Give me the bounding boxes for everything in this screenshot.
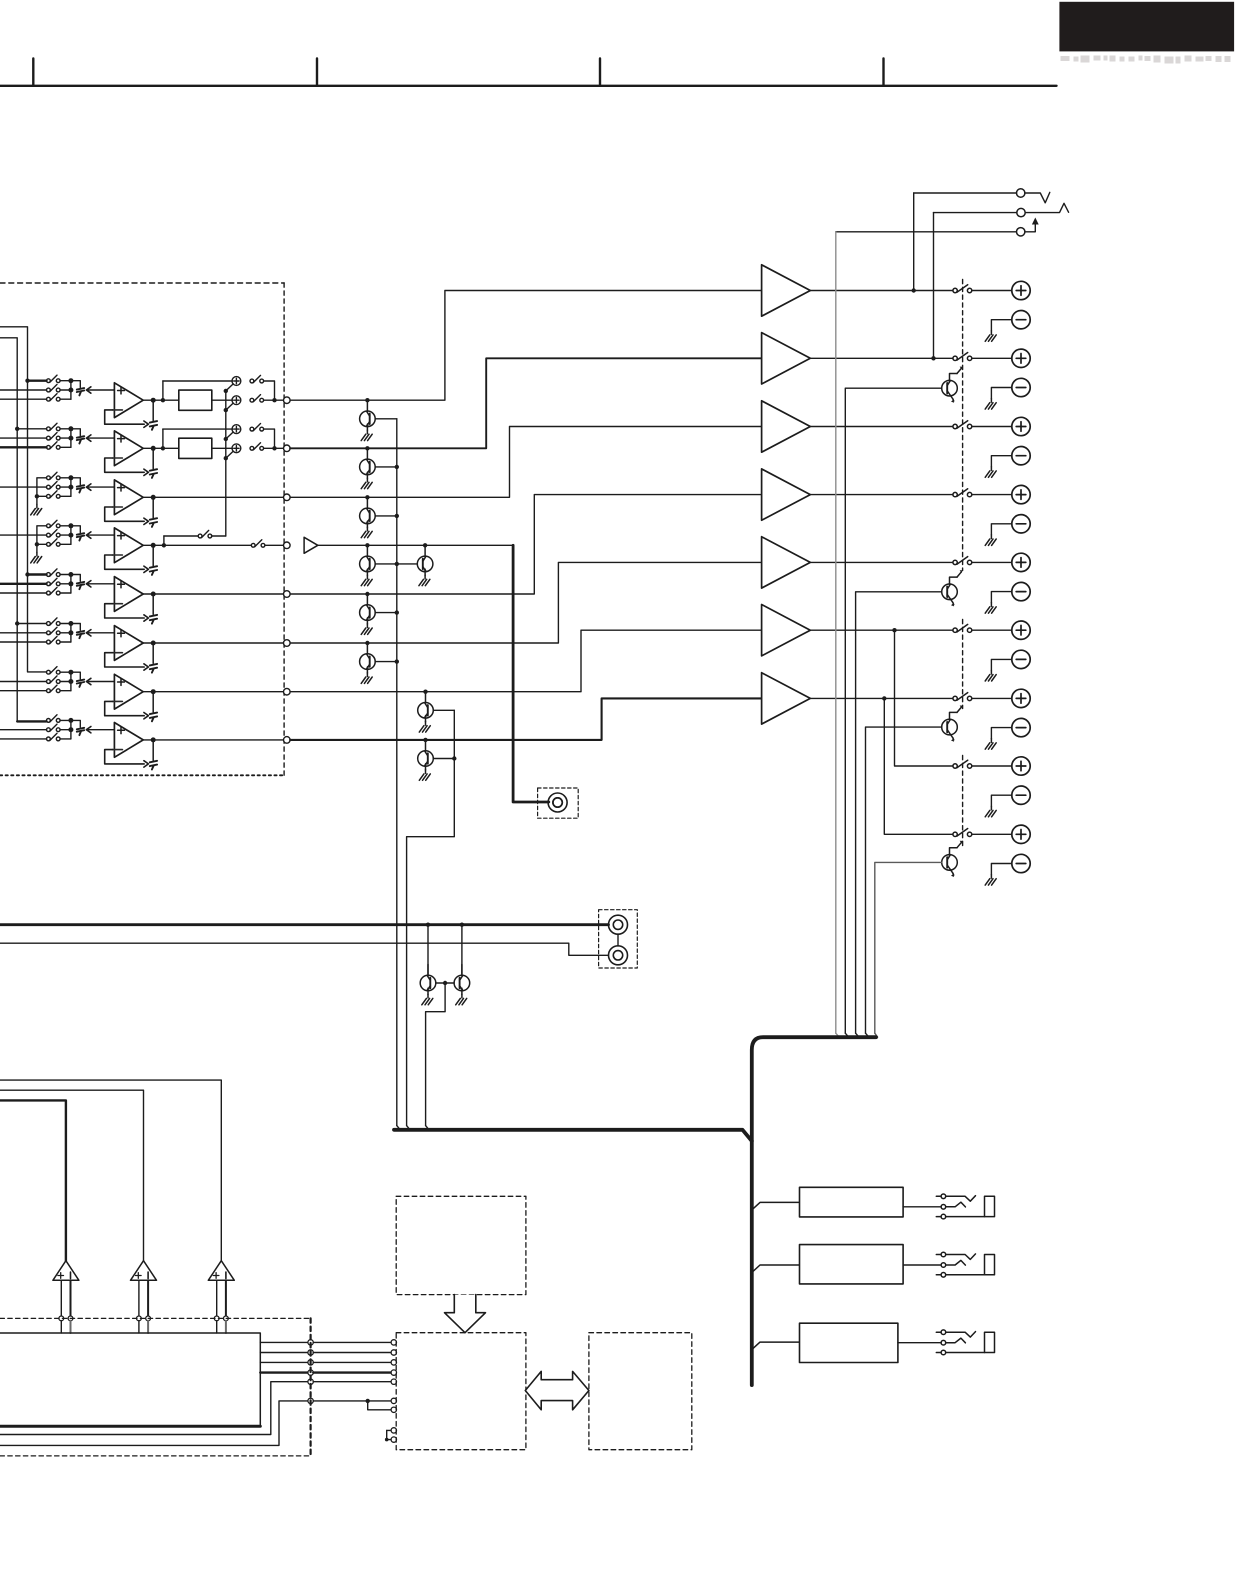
- speaker terminal +8: [1012, 757, 1030, 775]
- wire ch1 out to edge: [264, 399, 284, 401]
- switch S7-1: [47, 667, 61, 675]
- wire CN22 tail: [1025, 221, 1035, 232]
- wire CN6 to op-amp: [88, 632, 114, 634]
- wire main in R: [0, 943, 609, 955]
- wire Q4 bases: [375, 563, 417, 565]
- wire ch8 row3 feed: [0, 738, 47, 740]
- wire S17 to terminal: [972, 765, 1012, 767]
- muting transistor Q1: [365, 398, 369, 402]
- relay gang line 2: [962, 620, 964, 709]
- wire S3-3 out: [60, 495, 71, 497]
- speaker relay switch S12: [953, 421, 972, 429]
- connector CN8: [77, 728, 84, 735]
- muting transistor Q4b: [423, 543, 427, 547]
- switch S2-5: [250, 443, 264, 451]
- wire ch6 to power amp 5: [290, 562, 761, 643]
- ground terminal 7: [985, 739, 996, 750]
- wire ch4 to connector: [71, 526, 80, 533]
- wire CN5 to op-amp: [88, 583, 114, 585]
- wire U1 feedback: [105, 410, 145, 424]
- preamp board dashed outline: [0, 282, 284, 284]
- wire S5-2 out: [60, 583, 71, 585]
- wire ch4 to edge: [265, 544, 283, 546]
- wire CN21 tail: [1025, 203, 1068, 212]
- wire ch6 switch join: [70, 624, 72, 643]
- wire ch4 output: [143, 544, 251, 546]
- headphone relay RY3: [800, 1323, 898, 1362]
- level shifter A2: [131, 1261, 157, 1281]
- wire ch8 to connector: [71, 720, 80, 727]
- wire terminal -3 ground: [991, 456, 1011, 467]
- wire ch2 to power amp 2: [290, 358, 761, 448]
- op-amp U8: [112, 723, 143, 758]
- speaker terminal -9: [1012, 854, 1030, 872]
- memory block dashed: [589, 1333, 692, 1450]
- wire Q8 base: [433, 758, 454, 760]
- harness cable lower: [394, 1130, 752, 1141]
- wire CN7 to op-amp: [88, 681, 114, 683]
- ground terminal 2: [985, 399, 996, 410]
- ground Q9a: [422, 994, 433, 1005]
- wire ch7 to power amp 6: [290, 630, 761, 692]
- rec jack dashed box: [538, 788, 579, 818]
- switch S1-4: [250, 375, 264, 383]
- connector CN6b: [152, 643, 154, 663]
- wire connector CN20 feed: [913, 193, 915, 291]
- wire CN20 tail: [1025, 192, 1050, 202]
- switch S3-1: [47, 472, 61, 480]
- wire ch4 row2 feed: [0, 534, 47, 536]
- wire terminal -9 ground: [991, 864, 1011, 875]
- connector CN4b: [152, 545, 154, 565]
- wire ch4 to rec jack: [318, 544, 513, 546]
- muting transistor Q7: [423, 690, 427, 694]
- op-amp U6: [112, 626, 143, 661]
- wire ch1 to connector: [71, 381, 80, 388]
- wire ch3 to connector: [71, 478, 80, 485]
- ground Q6: [361, 673, 372, 684]
- power amp PA7: [762, 673, 811, 724]
- wire IC out 4: [260, 1371, 308, 1373]
- line in jack J11: [609, 946, 628, 965]
- wire ch5 row3 feed: [0, 592, 47, 594]
- connector CN21: [1017, 208, 1025, 216]
- switch S8-3: [47, 733, 61, 741]
- connector CN3: [77, 485, 84, 492]
- line in dashed box: [599, 910, 638, 968]
- switch S6-3: [47, 636, 61, 644]
- ground terminal 5: [985, 603, 996, 614]
- switch S1-3: [47, 394, 61, 402]
- wire ch2 output: [143, 447, 179, 449]
- speaker terminal +4: [1012, 485, 1030, 503]
- power amp PA2: [762, 333, 811, 384]
- level shifter A1 pins: [60, 1280, 62, 1316]
- wire ch5 to power amp 4: [290, 495, 761, 594]
- switch S8-1: [47, 715, 61, 723]
- ground Q4a: [361, 575, 372, 586]
- wire ch5 to connector: [71, 575, 80, 582]
- wire relay control 5: [875, 862, 942, 1033]
- speaker relay switch S10: [953, 285, 972, 293]
- wire harness to relay 2: [752, 1265, 800, 1273]
- wire ch5 row1 feed: [28, 573, 47, 575]
- speaker relay switch S11: [953, 353, 972, 361]
- ground Q5: [361, 624, 372, 635]
- wire Q6 base: [375, 661, 397, 663]
- wire terminal -4 ground: [991, 524, 1011, 535]
- switch S9: [164, 535, 198, 537]
- wire terminal -8 ground: [991, 795, 1011, 806]
- level shifter A2 pins: [138, 1280, 140, 1316]
- ground terminal 1: [985, 331, 996, 342]
- wire display feed 3: [0, 1080, 221, 1261]
- buffer amp U9: [304, 537, 318, 553]
- wire relay control 1: [835, 232, 837, 1033]
- wire ch3 row3 feed: [37, 495, 47, 497]
- wire CN2 to op-amp: [88, 437, 114, 439]
- connector CN5b: [152, 594, 154, 614]
- wire S2-2 out: [60, 437, 71, 439]
- speaker terminal -8: [1012, 786, 1030, 804]
- switch S6-2: [47, 627, 61, 635]
- wire terminal -6 ground: [991, 659, 1011, 670]
- speaker relay switch S16: [953, 693, 972, 701]
- wire ch2 row1 feed: [17, 428, 46, 430]
- wire CN8 to op-amp: [88, 729, 114, 731]
- wire ch7 row2 feed: [0, 681, 47, 683]
- wire ch3 output: [143, 496, 283, 498]
- wire U8 feedback: [105, 750, 145, 764]
- op-amp U4: [112, 528, 143, 563]
- wire ch1 to power amp 1: [290, 291, 761, 401]
- ground terminal 9: [985, 875, 996, 886]
- wire S4-3 out: [60, 543, 71, 545]
- wire ch2 branch up: [162, 429, 164, 448]
- muting transistor Q9b: [461, 925, 463, 976]
- speaker relay switch S13: [953, 489, 972, 497]
- switch S2-2: [47, 433, 61, 441]
- power amp PA5: [762, 537, 811, 588]
- wire PA2 output: [810, 357, 953, 359]
- wire S10 to terminal: [972, 290, 1012, 292]
- wire U5 feedback: [105, 604, 145, 618]
- wire main in L: [0, 923, 609, 926]
- switch S1-1: [47, 375, 61, 383]
- switch S2-3: [47, 442, 61, 450]
- wire S18 to terminal: [972, 833, 1012, 835]
- ground Q4b: [419, 575, 430, 586]
- wire ch8 switch join: [70, 720, 72, 739]
- wire PA5 output: [810, 561, 953, 563]
- wire CN3 to op-amp: [88, 486, 114, 488]
- wire ch1 branch return: [264, 381, 275, 400]
- wire display feed 1: [0, 1100, 66, 1260]
- wire ch3 row2 feed: [0, 486, 47, 488]
- wire CN1 to op-amp: [88, 389, 114, 391]
- ground Q7: [419, 722, 430, 733]
- connector CN2: [77, 436, 84, 443]
- wire mute bus 2: [407, 710, 455, 1125]
- wire S7-3 out: [60, 690, 71, 692]
- wire S6-2 out: [60, 632, 71, 634]
- wire Q7 base: [433, 709, 454, 711]
- ground Q8: [419, 770, 430, 781]
- wire ch2 out to edge: [264, 447, 284, 449]
- connector J1: [284, 397, 291, 404]
- wire S6-1 out: [60, 623, 71, 625]
- speaker relay switch S17: [953, 760, 972, 768]
- wire S7-1 out: [60, 671, 71, 673]
- speaker terminal +5: [1012, 553, 1030, 571]
- wire S4-1 out: [60, 525, 71, 527]
- wire ch1 output: [143, 399, 179, 401]
- wire IC out 5: [0, 1382, 308, 1435]
- wire ch6 row1 feed: [17, 623, 46, 625]
- wire IC out 6 branch: [368, 1401, 391, 1410]
- filter block FL2: [179, 438, 212, 458]
- wire FL2 out: [212, 447, 233, 449]
- wire S6-3 out: [60, 641, 71, 643]
- wire terminal -2 ground: [991, 388, 1011, 399]
- switch S4-4: [251, 540, 265, 548]
- relay driver Q12: [942, 706, 963, 742]
- wire ch6 to connector: [71, 624, 80, 631]
- wire S13 to terminal: [972, 494, 1012, 496]
- ground terminal 4: [985, 535, 996, 546]
- muting transistor Q5: [365, 592, 369, 596]
- wire connector CN21 feed: [933, 213, 935, 359]
- wire ch5 output: [143, 593, 283, 595]
- muting transistor Q6: [365, 641, 369, 645]
- wire S2-3 out: [60, 446, 71, 448]
- wire terminal -7 ground: [991, 728, 1011, 739]
- wire harness to relay 1: [752, 1202, 800, 1210]
- wire U7 feedback: [105, 701, 145, 715]
- filter block FL1: [179, 390, 212, 410]
- level trim VR1a: [226, 377, 241, 391]
- ground Q9b: [456, 994, 467, 1005]
- speaker terminal +1: [1012, 281, 1030, 299]
- speaker terminal -3: [1012, 447, 1030, 465]
- wire ch3 to power amp 3: [290, 427, 761, 498]
- control board dashed outline: [0, 1317, 311, 1319]
- wire S1-2 out: [60, 389, 71, 391]
- wire ch8 output: [143, 739, 283, 741]
- wire S3-1 out: [60, 477, 71, 479]
- op-amp U3: [112, 480, 143, 515]
- connector CN20: [1017, 189, 1025, 197]
- wire ch5 switch join: [70, 575, 72, 594]
- speaker terminal +6: [1012, 621, 1030, 639]
- wire relay RY3 to jack: [898, 1342, 941, 1344]
- speaker terminal -1: [1012, 311, 1030, 329]
- wire Q2 base: [375, 466, 397, 468]
- connector CN4: [77, 533, 84, 540]
- wire ch6 output: [143, 642, 283, 644]
- line in jack J10: [609, 915, 628, 934]
- wire terminal -5 ground: [991, 592, 1011, 603]
- headphone jack PJ1: [936, 1194, 994, 1219]
- connector CN2b: [152, 448, 154, 468]
- wire S2-1 out: [60, 428, 71, 430]
- harness cable upper: [752, 1037, 876, 1385]
- power amp PA1: [762, 265, 811, 316]
- op-amp U2: [112, 431, 143, 466]
- switch S5-1: [47, 569, 61, 577]
- wire U2 feedback: [105, 458, 145, 472]
- wire S4-2 out: [60, 534, 71, 536]
- wire Q1 base: [375, 418, 397, 420]
- op-amp U1: [112, 383, 143, 418]
- rec out jack J9: [548, 793, 567, 812]
- wire Q9 bases: [436, 982, 454, 984]
- wire S8-1 out: [60, 719, 71, 721]
- speaker terminal -5: [1012, 582, 1030, 600]
- title block: [1059, 2, 1234, 52]
- wire mute bus 1: [396, 419, 398, 1126]
- speaker terminal +7: [1012, 689, 1030, 707]
- ground ch3 input: [31, 504, 42, 515]
- wire ch5 row2 feed: [0, 583, 47, 585]
- speaker terminal +9: [1012, 825, 1030, 843]
- wire S16 to terminal: [972, 697, 1012, 699]
- level shifter A3: [208, 1261, 234, 1281]
- wire U3 feedback: [105, 507, 145, 521]
- headphone jack PJ2: [936, 1252, 994, 1277]
- power amp PA4: [762, 469, 811, 520]
- wire Q3 base: [375, 515, 397, 517]
- muting transistor Q9a: [427, 925, 429, 976]
- muting transistor Q8: [423, 738, 427, 742]
- wire CN4 to op-amp: [88, 534, 114, 536]
- wire S1-1 out: [60, 380, 71, 382]
- wire relay control 2: [845, 388, 941, 1033]
- speaker terminal -7: [1012, 718, 1030, 736]
- wire ch2 switch join: [70, 429, 72, 448]
- connector J8: [284, 737, 291, 744]
- op-amp U5: [112, 577, 143, 612]
- speaker terminal -4: [1012, 515, 1030, 533]
- wire ch8 row2 feed: [0, 729, 47, 731]
- headphone relay RY2: [800, 1245, 904, 1284]
- wire PA4 output: [810, 494, 953, 496]
- wire relay RY1 to jack: [903, 1206, 941, 1208]
- wire ch1 row1 feed: [28, 380, 47, 382]
- relay driver Q11: [942, 570, 963, 606]
- wire relay RY2 to jack: [903, 1264, 941, 1266]
- wire ch2 row2 feed: [0, 437, 47, 439]
- ground terminal 6: [985, 670, 996, 681]
- wire S5-1 out: [60, 574, 71, 576]
- wire input bus A: [0, 327, 47, 672]
- relay gang line 3: [962, 756, 964, 847]
- wire ch7 output: [143, 691, 283, 693]
- connector CN1b: [152, 400, 154, 420]
- wire ch2 to connector: [71, 429, 80, 436]
- wire ch1 row3 feed: [0, 398, 47, 400]
- wire S7-2 out: [60, 681, 71, 683]
- system control IC Q30: [0, 1333, 260, 1426]
- wire ch3 switch join: [70, 478, 72, 497]
- wire ch3 row1 feed: [37, 478, 47, 505]
- wire terminal -1 ground: [991, 320, 1011, 331]
- connector CN5: [77, 582, 84, 589]
- connector CN7: [77, 680, 84, 687]
- wire FL1 out: [212, 399, 233, 401]
- display block dashed: [396, 1196, 526, 1294]
- wire PA6 to terminal 8: [892, 628, 896, 632]
- power amp PA3: [762, 401, 811, 452]
- wire ch1 row2 feed: [0, 389, 47, 391]
- headphone relay RY1: [800, 1187, 904, 1217]
- wire relay control 3: [856, 592, 942, 1033]
- connector CN8b: [152, 740, 154, 760]
- ground Q2: [361, 478, 372, 489]
- level trim VR1b: [226, 396, 241, 410]
- wire ch4 switch join: [70, 526, 72, 545]
- wire ch6 row3 feed: [0, 641, 47, 643]
- switch S7-2: [47, 676, 61, 684]
- wire ch4 row3 feed: [37, 543, 47, 545]
- connector J2: [284, 445, 291, 452]
- switch S1-2: [47, 384, 61, 392]
- ground Q3: [361, 527, 372, 538]
- title block ghost text: [1061, 56, 1231, 64]
- level trim VR2b: [226, 444, 241, 458]
- wire S8-3 out: [60, 738, 71, 740]
- level shifter A1: [53, 1261, 79, 1281]
- switch S2-4: [250, 424, 264, 432]
- wire ch7 to connector: [71, 672, 80, 679]
- connector J5: [284, 591, 291, 598]
- wire S5-3 out: [60, 592, 71, 594]
- connector CN1: [77, 388, 84, 395]
- wire IC out 2: [260, 1352, 308, 1354]
- switch S1-5: [250, 395, 264, 403]
- wire relay control 4: [866, 727, 942, 1033]
- connector CN7b: [152, 692, 154, 712]
- connector J7: [284, 688, 291, 695]
- wire ch4 row1 feed: [37, 526, 47, 553]
- connector J4: [284, 542, 291, 549]
- speaker relay switch S15: [953, 624, 972, 632]
- wire PA6 output: [810, 629, 953, 631]
- connector CN6: [77, 631, 84, 638]
- wire trim control bus: [225, 391, 227, 536]
- ground terminal 8: [985, 806, 996, 817]
- wire S1-3 out: [60, 398, 71, 400]
- wire S14 to terminal: [972, 561, 1012, 563]
- switch S8-2: [47, 724, 61, 732]
- wire U6 feedback: [105, 653, 145, 667]
- wire S3-2 out: [60, 486, 71, 488]
- level trim VR2a: [226, 425, 241, 439]
- wire connector CN22 feed: [836, 231, 1017, 233]
- speaker relay switch S14: [953, 557, 972, 565]
- speaker terminal -2: [1012, 378, 1030, 396]
- wire ch6 row2 feed: [0, 632, 47, 634]
- switch S6-1: [47, 618, 61, 626]
- wire S11 to terminal: [972, 357, 1012, 359]
- level shifter A3 pins: [216, 1280, 218, 1316]
- wire S12 to terminal: [972, 426, 1012, 428]
- microcontroller block dashed: [396, 1333, 526, 1450]
- muting transistor Q3: [365, 495, 369, 499]
- power amp PA6: [762, 605, 811, 656]
- wire input bus B: [0, 338, 17, 722]
- connector CN3b: [152, 497, 154, 517]
